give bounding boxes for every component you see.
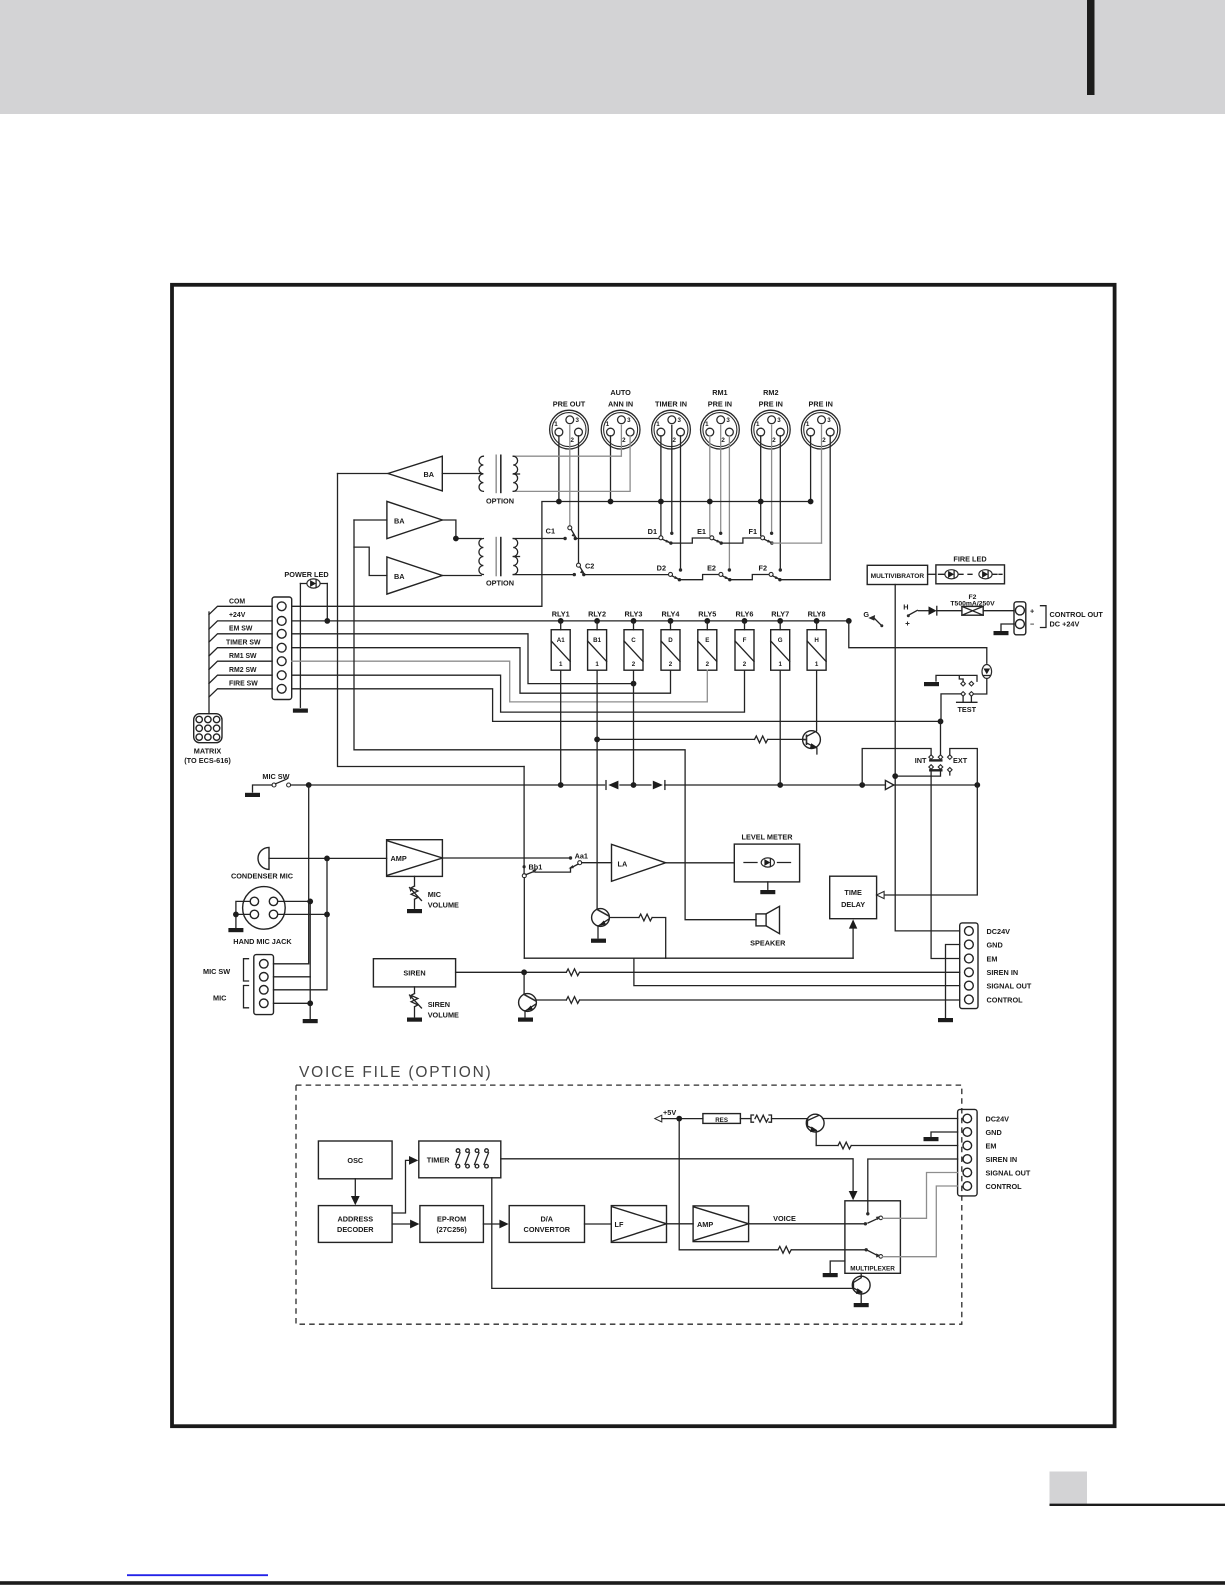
wire SIREN IN terminal into multiplexer	[868, 1159, 958, 1213]
TIME DELAY block	[830, 876, 877, 919]
ground MIC VOLUME	[407, 909, 422, 913]
svg-text:HAND MIC JACK: HAND MIC JACK	[233, 937, 292, 946]
svg-text:2: 2	[669, 661, 673, 668]
svg-text:LEVEL METER: LEVEL METER	[742, 832, 794, 841]
svg-text:MIC: MIC	[213, 994, 227, 1003]
wire LED to TEST switch right pole	[974, 679, 987, 695]
wire AMP output to Aa1	[442, 857, 570, 859]
svg-text:INT: INT	[915, 756, 927, 765]
wire RM1 SW to RLY5 bottom	[292, 661, 708, 702]
wire siren node down to transistor Q3	[523, 972, 525, 993]
wire MIC SW terminal 2	[274, 976, 311, 978]
multiplexer switch 2	[868, 1251, 883, 1259]
TEST switch	[936, 675, 977, 713]
wire jack pin to MIC terminal riser	[278, 913, 327, 915]
arrow into TIME DELAY	[877, 891, 885, 898]
multiplexer switch 1	[868, 1216, 883, 1223]
terminal CONTROL OUT	[1014, 602, 1103, 635]
wire diode to fuse	[937, 610, 962, 612]
svg-text:TIMER: TIMER	[427, 1155, 450, 1164]
wire BA1 output to left riser	[338, 473, 389, 475]
wire bottom left contact down to EM terminal	[931, 769, 960, 958]
svg-text:EM: EM	[987, 954, 998, 963]
svg-text:(27C256): (27C256)	[436, 1225, 467, 1234]
wire row1 E1 to F1 with jog	[721, 538, 761, 543]
transformer T1	[442, 455, 519, 506]
svg-text:1: 1	[559, 661, 563, 668]
wire jack pin to MIC SW terminal 2	[278, 901, 311, 1003]
switch F2	[758, 564, 781, 582]
wire multivibrator to fire LED box	[928, 573, 936, 575]
svg-text:2: 2	[743, 661, 747, 668]
wire mux switch1 to SIGNAL OUT terminal	[883, 1173, 958, 1219]
switch D2	[657, 564, 681, 582]
wire mux switch2 to CONTROL terminal	[883, 1186, 958, 1257]
svg-text:F: F	[743, 637, 747, 644]
svg-text:DC24V: DC24V	[987, 927, 1011, 936]
wire switch row1 C1 to D1	[575, 538, 659, 540]
svg-text:RLY7: RLY7	[771, 609, 789, 618]
buffer amp on audio bus	[885, 780, 893, 789]
D/A CONVERTOR block	[509, 1206, 584, 1243]
XLR connector AUTO ANN IN	[601, 388, 640, 449]
svg-text:RLY2: RLY2	[588, 609, 606, 618]
svg-text:TIMER IN: TIMER IN	[655, 400, 687, 409]
svg-text:RM1 SW: RM1 SW	[229, 653, 257, 660]
ground Q3	[518, 1018, 533, 1022]
header gray bar	[0, 0, 1225, 114]
wire PRE OUT pin2 down to C2 pivot	[578, 436, 580, 564]
svg-text:AMP: AMP	[391, 854, 407, 863]
switch D1	[648, 527, 673, 545]
OSC block	[318, 1141, 392, 1179]
relay RLY8	[807, 609, 826, 670]
wire RM2 SW to RLY6 bottom	[292, 670, 745, 712]
footer blue link line	[127, 1574, 268, 1576]
ground MIC terminal	[303, 1019, 318, 1023]
wire TIMER SW to RLY4 bottom	[292, 648, 671, 694]
svg-text:DELAY: DELAY	[841, 900, 865, 909]
svg-text:BA: BA	[423, 470, 434, 479]
svg-text:H: H	[903, 602, 908, 611]
svg-text:H: H	[814, 637, 819, 644]
svg-text:+5V: +5V	[663, 1108, 676, 1117]
svg-text:AUTO: AUTO	[610, 388, 631, 397]
wire Aa1 pivot to LA	[582, 862, 612, 864]
wires terminal to left bus with slashes	[209, 606, 272, 713]
svg-text:PRE IN: PRE IN	[809, 400, 833, 409]
wire row2 E2 to F2 with jog	[730, 575, 769, 580]
op-amp BA3	[387, 557, 442, 594]
svg-text:B1: B1	[593, 637, 601, 644]
wire RM2 pin2 down to F2 throw	[779, 436, 781, 570]
svg-text:GND: GND	[987, 940, 1003, 949]
wire AUTO ANN pin3 to transformer T1 top	[513, 426, 621, 457]
svg-text:+: +	[1030, 606, 1034, 615]
svg-text:D/A: D/A	[541, 1214, 554, 1223]
footer black bar	[0, 1581, 1225, 1585]
wire SIREN output to SIREN IN terminal	[456, 971, 960, 973]
diagram frame	[172, 285, 1115, 1426]
svg-text:EP-ROM: EP-ROM	[437, 1214, 466, 1223]
XLR connector RM2 PRE IN	[751, 388, 790, 449]
svg-text:D: D	[668, 637, 673, 644]
svg-text:BA: BA	[394, 517, 405, 526]
svg-text:CONTROL: CONTROL	[987, 995, 1024, 1004]
svg-text:SIREN IN: SIREN IN	[986, 1155, 1018, 1164]
svg-text:OSC: OSC	[347, 1156, 364, 1165]
transformer T2	[479, 537, 520, 588]
switch Bb1	[522, 862, 542, 877]
resistor on EM drive line	[778, 1246, 791, 1253]
wire D/A to LF	[585, 1223, 612, 1225]
wire address decoder to EP-ROM with arrow	[392, 1223, 410, 1225]
condenser mic	[231, 847, 294, 880]
op-amp BA2	[387, 501, 442, 538]
svg-text:(TO ECS-616): (TO ECS-616)	[184, 756, 231, 765]
send bus Bb1 to TIME DELAY	[524, 957, 853, 959]
svg-text:RLY3: RLY3	[625, 609, 643, 618]
junction dots on pin1 bus	[556, 499, 562, 505]
svg-text:MULTIVIBRATOR: MULTIVIBRATOR	[871, 573, 925, 580]
XLR connector PRE IN	[801, 400, 840, 450]
wire row2 F2 to PRE IN pin2 riser	[780, 579, 830, 581]
XLR connector RM1 PRE IN	[701, 388, 740, 449]
wire row2 C2 to D2	[584, 574, 668, 576]
svg-text:VOLUME: VOLUME	[428, 1011, 459, 1020]
svg-text:CONVERTOR: CONVERTOR	[524, 1225, 571, 1234]
wire RLY1 coil bottom to audio bus	[560, 670, 562, 785]
+24V bus to relays and G switch	[292, 620, 849, 622]
op-amp LA	[612, 844, 666, 881]
junction dots on audio bus	[859, 782, 865, 788]
svg-text:C1: C1	[546, 527, 555, 536]
svg-text:Aa1: Aa1	[575, 852, 588, 861]
wire LA to level meter	[666, 862, 735, 864]
relay RLY5	[698, 609, 717, 670]
svg-text:RLY5: RLY5	[698, 609, 716, 618]
wire RLY3 coil bottom to audio bus	[633, 670, 635, 785]
wire T2 top secondary to switch C1	[513, 538, 565, 540]
switch G on +24V feed	[846, 610, 883, 627]
wire power LED cathode to ground	[299, 584, 301, 708]
svg-text:+24V: +24V	[229, 612, 246, 619]
terminal strip right (voice file, 6 way)	[958, 1109, 1031, 1196]
wire row1 F1 to PRE IN pin3 riser	[772, 542, 822, 544]
svg-text:RM2: RM2	[763, 388, 778, 397]
switch H	[903, 602, 917, 625]
transistor Q6	[852, 1273, 870, 1302]
svg-text:COM: COM	[229, 598, 245, 605]
resistor Q2 collector	[639, 914, 652, 921]
svg-text:OPTION: OPTION	[486, 578, 514, 587]
wire post-buffer node down to TIME DELAY input	[882, 785, 977, 895]
wire AUTO ANN pin1 down to ground bus	[610, 436, 612, 502]
wire mux ground tap	[830, 1261, 845, 1272]
svg-text:DC24V: DC24V	[986, 1114, 1010, 1123]
amplifier AMP (voice) block	[693, 1206, 749, 1242]
op-amp BA1	[388, 456, 442, 491]
wire PRE IN pin2 down to switch row 2	[829, 436, 831, 580]
speaker	[750, 906, 786, 947]
svg-text:PRE IN: PRE IN	[759, 400, 783, 409]
terminal strip left (7 way)	[272, 597, 292, 700]
ADDRESS DECODER block	[318, 1206, 392, 1243]
wire row2 D2 to E2 with jog	[679, 575, 718, 580]
svg-text:RM2 SW: RM2 SW	[229, 667, 257, 674]
svg-text:E: E	[705, 637, 709, 644]
svg-text:F1: F1	[748, 527, 757, 536]
svg-text:BA: BA	[394, 572, 405, 581]
wire +5V node down to mux switch 2	[679, 1119, 778, 1250]
fuse F2 T500mA/250V	[950, 594, 995, 615]
switch MIC SW	[262, 772, 290, 787]
voice file dashed enclosure	[296, 1085, 962, 1324]
svg-text:2: 2	[706, 661, 710, 668]
footer rule right	[1050, 1504, 1225, 1506]
header black tab	[1087, 0, 1095, 95]
matrix connector (to ECS-616)	[184, 714, 231, 765]
wire FIRE node down to INT/EXT center	[940, 721, 942, 754]
svg-text:RM1: RM1	[712, 388, 727, 397]
XLR connector TIMER IN	[652, 400, 691, 450]
svg-text:PRE OUT: PRE OUT	[553, 400, 586, 409]
wire TEST left pole to FIRE line node	[941, 694, 961, 722]
wire TIMER pin3 down to D1 throw	[671, 426, 673, 534]
relay RLY3	[624, 609, 643, 670]
svg-text:ADDRESS: ADDRESS	[337, 1214, 373, 1223]
wire H to diode	[919, 610, 929, 612]
wire mic to AMP	[269, 857, 387, 859]
wire RM1 pin3 down to E1 throw	[720, 426, 722, 534]
wire row1 D1 to E1 with jog	[671, 538, 710, 543]
svg-text:SIGNAL OUT: SIGNAL OUT	[986, 1168, 1031, 1177]
svg-text:−: −	[1030, 619, 1034, 628]
svg-text:FIRE LED: FIRE LED	[953, 555, 986, 564]
riser condenser line to MIC terminal	[274, 858, 328, 989]
wire jack left pins to ground	[236, 901, 250, 927]
svg-text:EM SW: EM SW	[229, 625, 253, 632]
svg-text:CONTROL: CONTROL	[986, 1182, 1023, 1191]
wire MIC terminal 4 to ground	[274, 1003, 311, 1018]
wire BA3 input joins BA2 line	[354, 547, 387, 575]
ground control out	[994, 631, 1009, 635]
wire FIRE SW long run to test/INT node	[292, 689, 941, 722]
POWER LED	[284, 570, 328, 588]
LEVEL METER	[734, 832, 799, 882]
wire T2 bottom secondary to switch C2	[513, 574, 574, 576]
FIRE LED box	[936, 555, 1005, 584]
svg-text:SIGNAL OUT: SIGNAL OUT	[987, 981, 1032, 990]
multiplexer block	[845, 1201, 901, 1274]
svg-text:TEST: TEST	[957, 705, 976, 714]
wire AUTO ANN pin2 to transformer T1 bottom	[513, 436, 630, 492]
wire resistor to mux switch 2	[792, 1249, 866, 1251]
ground Q6	[854, 1303, 869, 1307]
svg-text:A1: A1	[557, 637, 565, 644]
XLR connector PRE OUT	[550, 400, 589, 450]
wire PRE OUT pin1 down to ground bus	[558, 436, 560, 502]
svg-text:DC +24V: DC +24V	[1050, 620, 1080, 629]
wire PRE OUT pin3 down to C1 pivot	[569, 426, 571, 527]
wire GND terminal (voice) to ground	[931, 1132, 958, 1136]
diode on audio bus pointing left	[606, 781, 618, 790]
diode on audio bus pointing right	[653, 781, 665, 790]
svg-text:CONDENSER MIC: CONDENSER MIC	[231, 871, 294, 880]
resistor Q3 output	[566, 997, 579, 1004]
wire EM SW to RLY3 column	[292, 634, 634, 684]
wire RM1 pin1 down to E1 pivot	[709, 436, 711, 536]
svg-text:MULTIPLEXER: MULTIPLEXER	[850, 1265, 895, 1272]
ground multiplexer	[823, 1273, 838, 1277]
relay RLY1	[551, 609, 570, 670]
ground right terminal	[938, 1018, 953, 1022]
wire PRE IN pin3 down to switch row 1	[821, 426, 823, 544]
wire address decoder to timer with arrow	[392, 1160, 409, 1213]
hand mic jack	[233, 887, 292, 946]
ground Q2	[591, 939, 606, 943]
ground power LED	[293, 709, 308, 713]
wire BA2 output to T2 top	[442, 520, 481, 539]
wire LF to voice AMP	[667, 1223, 694, 1225]
wire TIMER bottom to transistor Q6 base	[492, 1178, 852, 1289]
wire Q3 to CONTROL terminal	[580, 999, 959, 1001]
ground MIC SW	[245, 793, 260, 797]
svg-text:PRE IN: PRE IN	[708, 400, 732, 409]
switch E1	[697, 527, 723, 545]
wire EP-ROM to D/A with arrow	[483, 1223, 500, 1225]
svg-text:TIMER SW: TIMER SW	[226, 639, 261, 646]
svg-text:RLY1: RLY1	[552, 609, 570, 618]
wire Bb1 riser continues down to send bus	[523, 767, 525, 959]
wire MIC SW left contact to ground	[253, 785, 273, 792]
relay RLY7	[771, 609, 790, 670]
svg-text:G: G	[863, 610, 869, 619]
wire Q2 resistor to send bus	[653, 918, 666, 959]
wire Q5 collector to DC24V terminal	[823, 1118, 958, 1120]
relay RLY6	[735, 609, 754, 670]
wire INT top contact loop to audio bus	[862, 749, 931, 786]
wire TIMER pin1 down to D1 pivot	[660, 436, 662, 536]
wire power LED anode to +24V	[326, 584, 328, 621]
svg-text:VOICE FILE (OPTION): VOICE FILE (OPTION)	[299, 1064, 493, 1081]
amplifier AMP block	[387, 840, 443, 877]
svg-text:EXT: EXT	[953, 756, 968, 765]
svg-text:GND: GND	[986, 1128, 1002, 1137]
LED test indicator	[982, 665, 992, 679]
SIREN block	[373, 959, 455, 987]
svg-text:DECODER: DECODER	[337, 1225, 374, 1234]
potentiometer MIC VOLUME	[409, 876, 459, 909]
wire level meter to ground	[767, 882, 769, 889]
wire BA2/BA3 riser down to speaker feed	[354, 520, 756, 920]
ground SIREN VOLUME	[407, 1018, 422, 1022]
wire OSC to address decoder with arrow	[354, 1179, 356, 1197]
wire G node down to test LED feed	[849, 621, 987, 663]
switch Aa1	[569, 852, 588, 869]
svg-text:MATRIX: MATRIX	[194, 746, 222, 755]
svg-text:C: C	[631, 637, 636, 644]
wire BA3 output to T2 bottom	[442, 575, 481, 577]
footer gray square	[1050, 1472, 1088, 1506]
wire GND terminal to ground	[946, 945, 960, 1018]
terminal strip MIC SW / MIC	[203, 955, 274, 1015]
resistor RES block	[703, 1114, 741, 1124]
relay RLY4	[661, 609, 680, 670]
svg-text:ANN IN: ANN IN	[608, 400, 633, 409]
+5V supply arrow	[655, 1108, 703, 1122]
transistor Q5	[806, 1114, 824, 1145]
switch F1	[748, 527, 773, 545]
svg-text:SPEAKER: SPEAKER	[750, 938, 786, 947]
wire EXT top contact to post-buffer node	[950, 749, 978, 786]
transistor Q3 (control output)	[519, 993, 567, 1017]
svg-text:RLY8: RLY8	[808, 609, 826, 618]
TIMER block with switches	[419, 1141, 501, 1178]
svg-text:OPTION: OPTION	[486, 496, 514, 505]
svg-text:RLY4: RLY4	[662, 609, 681, 618]
resistor on siren line	[566, 969, 579, 976]
svg-text:LA: LA	[618, 859, 628, 868]
svg-text:RLY6: RLY6	[736, 609, 754, 618]
wire resistor to Q1 base	[769, 738, 804, 740]
ground level meter	[760, 890, 775, 894]
svg-text:EM: EM	[986, 1141, 997, 1150]
terminal strip right (main, 6 way)	[960, 923, 1032, 1009]
switch C1	[546, 526, 577, 540]
wire TIME DELAY bottom with up arrow to switch line	[852, 928, 854, 958]
svg-text:POWER LED: POWER LED	[284, 570, 328, 579]
transistor Q1	[803, 731, 821, 754]
resistor on +5V line	[751, 1115, 772, 1122]
svg-text:AMP: AMP	[697, 1220, 713, 1229]
switch E2	[707, 564, 731, 582]
wire RM2 pin1 down to F1 pivot	[760, 436, 762, 536]
svg-text:SIREN: SIREN	[403, 969, 425, 978]
wire RM2 pin3 down to F1 throw	[771, 426, 773, 534]
wire TIMER output to multiplexer with arrow	[501, 1159, 853, 1192]
svg-text:RES: RES	[715, 1117, 728, 1124]
wire MIC SW terminal 1 up to bus	[274, 785, 309, 964]
ground bus of XLR pin1 with COM riser	[292, 502, 811, 607]
svg-text:1: 1	[815, 661, 819, 668]
svg-text:2: 2	[632, 661, 636, 668]
wire RES to resistor	[740, 1118, 751, 1120]
svg-text:1: 1	[778, 661, 782, 668]
ground voice GND	[924, 1137, 939, 1141]
svg-text:MIC SW: MIC SW	[203, 967, 230, 976]
svg-text:F2: F2	[758, 564, 767, 573]
resistor Q1 base	[755, 736, 768, 743]
ground hand mic jack	[228, 928, 243, 932]
svg-text:E2: E2	[707, 564, 716, 573]
wire TIMER pin2 down to D2 throw	[680, 436, 682, 570]
wire multivibrator output down to DC24V terminal	[895, 585, 960, 931]
svg-text:VOICE: VOICE	[773, 1214, 796, 1223]
svg-text:E1: E1	[697, 527, 706, 536]
wire Q5 emitter through resistor to EM terminal	[816, 1145, 838, 1147]
svg-text:G: G	[778, 637, 783, 644]
EP-ROM block	[420, 1206, 484, 1243]
svg-text:SIREN: SIREN	[428, 1000, 450, 1009]
wire RLY2 coil bottom down to transistor Q2	[596, 670, 598, 908]
wire RLY7 coil bottom to audio bus	[779, 670, 781, 785]
svg-text:D1: D1	[648, 527, 657, 536]
wire send bus branch to SIGNAL OUT	[634, 958, 960, 985]
potentiometer SIREN VOLUME	[409, 987, 459, 1020]
svg-text:D2: D2	[657, 564, 666, 573]
multivibrator block	[867, 565, 927, 584]
